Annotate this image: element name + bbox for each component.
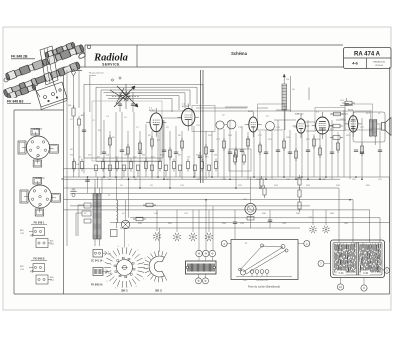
note ne pas mesurer <box>89 71 104 112</box>
vertical wires below bus to bottom components <box>88 177 327 250</box>
label FK 848 1 <box>31 221 47 225</box>
svg-text:FK 848 1: FK 848 1 <box>34 221 45 225</box>
svg-text:2-40 3-40 2-42: 2-40 3-40 2-42 <box>256 280 268 282</box>
wire top bus nest <box>84 84 203 161</box>
tube socket diagram F 848 M <box>20 177 60 216</box>
grille callout 10 bottom <box>337 278 343 291</box>
wire mid horizontal pair <box>110 218 390 228</box>
svg-text:SK 1: SK 1 <box>121 289 128 293</box>
svg-text:1M: 1M <box>124 155 127 157</box>
svg-text:1: 1 <box>128 245 129 247</box>
trimmer unit block 1 <box>20 228 55 248</box>
svg-text:2: 2 <box>103 261 104 263</box>
svg-text:56k: 56k <box>142 155 145 157</box>
module box V5 section <box>315 108 345 131</box>
title block RA 474 A <box>344 48 392 69</box>
svg-text:FK 848 2B: FK 848 2B <box>11 55 28 59</box>
tube base pinout diagrams row <box>153 232 213 241</box>
left margin wires <box>82 112 86 174</box>
header band frame <box>64 45 391 67</box>
connector circles above terminal strip <box>196 250 216 260</box>
screen shield double line <box>201 70 204 183</box>
rotary switch wafer SK2 crescent <box>144 228 167 293</box>
tube V4 EABC80 <box>293 113 310 139</box>
svg-text:1n: 1n <box>79 157 81 159</box>
tuning gang <box>110 77 140 112</box>
antenna 300 ohm input symbols <box>68 69 84 177</box>
output stage rounded box <box>353 112 385 142</box>
svg-text:1-40: 1-40 <box>243 280 247 282</box>
svg-text:B: B <box>62 177 64 181</box>
Radiola service logo <box>93 53 128 67</box>
component row value labels <box>70 155 218 159</box>
resistors near detector <box>133 176 266 221</box>
svg-text:SK 2: SK 2 <box>155 289 162 293</box>
svg-text:4: 4 <box>146 268 147 270</box>
svg-text:Ne pas mesurer: Ne pas mesurer <box>89 71 104 74</box>
pilot lamp <box>121 220 129 228</box>
svg-text:ECC85: ECC85 <box>182 106 190 108</box>
speaker grille back panel <box>331 240 385 278</box>
power transformer T1 <box>93 188 117 246</box>
main schematic frame <box>14 67 390 294</box>
svg-text:FK 848 B3: FK 848 B3 <box>7 100 24 104</box>
svg-text:05 N 04: 05 N 04 <box>375 65 383 67</box>
svg-text:Schéma: Schéma <box>231 51 247 56</box>
dial cord callout 2 right <box>298 241 310 247</box>
dial cord tick labels <box>243 280 268 282</box>
svg-text:4-6: 4-6 <box>352 62 358 66</box>
left margin bus wire <box>66 70 68 246</box>
grille callout 7 left <box>318 261 331 267</box>
svg-text:SERVICE: SERVICE <box>102 62 119 66</box>
svg-text:3: 3 <box>144 258 145 260</box>
tube V2 ECC85 <box>178 104 199 131</box>
resistor row above bus <box>72 159 217 178</box>
mains wiring loops <box>76 203 91 236</box>
module box output section <box>345 104 373 130</box>
grille callout 6 bottom <box>361 278 367 292</box>
svg-text:47k: 47k <box>70 155 73 157</box>
module box V2 section <box>192 106 215 132</box>
loudspeaker <box>377 118 391 136</box>
tube V5 EL84 dark <box>312 112 334 140</box>
dial cord callout 2 left <box>221 241 231 247</box>
resistor chain mid right <box>298 175 301 212</box>
svg-text:RS/DE/JC A: RS/DE/JC A <box>373 61 385 64</box>
svg-text:330k: 330k <box>160 155 164 157</box>
junction dots <box>87 176 363 200</box>
svg-text:EABC80: EABC80 <box>295 113 304 116</box>
aux part item FK 848 5A <box>91 268 112 287</box>
tube V6 EL84 output <box>345 110 362 138</box>
label FK 848 2B <box>10 53 37 60</box>
svg-text:EL84: EL84 <box>348 110 354 112</box>
tube V1 EC92 <box>146 108 166 137</box>
svg-text:Pose du cordon (Bandkoord): Pose du cordon (Bandkoord) <box>248 286 280 289</box>
svg-text:2: 2 <box>138 250 139 252</box>
component value labels <box>70 113 383 225</box>
svg-text:10k: 10k <box>106 155 109 157</box>
mains earth symbol <box>62 177 77 197</box>
IF transformer circles L2 <box>216 115 236 130</box>
label FK 848 B <box>31 257 47 261</box>
svg-text:C 44: C 44 <box>339 273 345 275</box>
IF transformer circle L3 <box>266 116 275 131</box>
scattered resistors upper <box>108 135 363 161</box>
resistors at output stage <box>330 101 355 139</box>
svg-text:3: 3 <box>108 252 109 254</box>
svg-text:5: 5 <box>143 279 144 281</box>
svg-text:8: 8 <box>115 288 116 290</box>
aux part item ZC 041 14 <box>91 250 111 263</box>
svg-text:68n: 68n <box>178 155 181 157</box>
filter choke coil <box>117 193 118 228</box>
svg-text:EC92: EC92 <box>149 110 155 112</box>
logo flourish <box>76 51 85 58</box>
tube socket diagram F 848 H <box>18 128 58 167</box>
FM module outline <box>92 101 162 161</box>
vertical wires grid <box>104 110 380 188</box>
svg-text:9: 9 <box>107 281 108 283</box>
svg-text:RA 474 A: RA 474 A <box>354 52 381 58</box>
long wire y111 <box>150 110 370 112</box>
trimmer unit block 2 <box>20 264 55 285</box>
connector circles below terminal strip <box>196 274 209 284</box>
grille callout 3 right <box>381 268 390 274</box>
svg-text:6: 6 <box>136 286 137 288</box>
tube V3 EF89 <box>245 111 262 137</box>
svg-text:FK 848 5A: FK 848 5A <box>91 284 103 287</box>
svg-text:300: 300 <box>68 105 71 107</box>
output transformer hatched can <box>369 110 377 145</box>
terminal strip <box>186 261 217 274</box>
label FK 848 B3 <box>7 98 34 105</box>
capacitor junction top right <box>340 98 353 106</box>
dial cord diagram box <box>231 240 298 280</box>
electrolytic capacitor C52 <box>243 199 256 220</box>
svg-text:300: 300 <box>81 115 84 117</box>
svg-text:C 46: C 46 <box>363 273 369 275</box>
svg-text:gamme: gamme <box>89 75 97 77</box>
pinout diagrams right pair <box>309 226 329 233</box>
svg-text:FK 848 B: FK 848 B <box>33 257 44 261</box>
left parts box <box>14 110 64 294</box>
capacitors on wires <box>85 150 382 224</box>
svg-text:ZC 041 14: ZC 041 14 <box>91 260 103 263</box>
rotary switch wafer SK1 <box>102 228 147 293</box>
ferrite rod antenna <box>282 74 309 130</box>
wire lower bus band <box>64 169 390 242</box>
tube row connector wires <box>162 107 348 131</box>
detector section box <box>229 149 251 171</box>
svg-text:12k: 12k <box>286 79 289 81</box>
svg-text:22n: 22n <box>205 157 208 159</box>
module box V3 section <box>258 104 286 130</box>
svg-text:EF89: EF89 <box>248 111 254 113</box>
FM tuner unit FK 848 2B isometric drawing <box>3 42 91 110</box>
svg-text:4: 4 <box>117 246 118 248</box>
svg-text:1: 1 <box>102 271 103 273</box>
